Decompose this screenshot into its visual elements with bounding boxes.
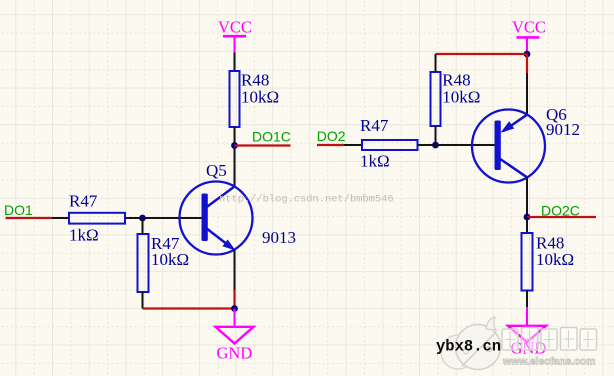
svg-text:R47: R47 — [69, 192, 98, 211]
wire DO1 to R47 — [52, 217, 69, 219]
wire Q6 collector down — [526, 177, 528, 217]
resistor R47 body (left horizontal) — [69, 213, 125, 224]
transistor Q6 emitter line — [503, 115, 527, 132]
transistor Q5 base bar — [202, 194, 208, 242]
svg-text:DO1C: DO1C — [252, 129, 291, 145]
wire VCC to R48 (left) — [234, 53, 236, 72]
svg-text:ybx8.cn: ybx8.cn — [436, 338, 501, 356]
wire GND rail (left red) — [143, 307, 235, 309]
wire junction to R48 bottom — [526, 217, 528, 233]
wire VCC junction down (red) — [526, 54, 528, 73]
wire R47 to Q5 base — [125, 217, 202, 219]
svg-text:DO2C: DO2C — [541, 202, 580, 218]
resistor R48 body (right top) — [431, 72, 441, 126]
transistor Q5 emitter arrow — [223, 240, 236, 251]
wire R48 to GND (right) — [526, 291, 528, 308]
junction node base Q6 — [432, 142, 439, 149]
wire emitter to GND junction (red) — [233, 290, 235, 309]
ground stub (right) — [526, 307, 528, 326]
svg-text:10kΩ: 10kΩ — [536, 250, 574, 269]
transistor Q6 base bar — [495, 121, 501, 171]
resistor R47 body (left vertical pulldown) — [138, 234, 149, 292]
junction node DO1C — [231, 142, 238, 149]
junction node base Q5 — [139, 215, 146, 222]
transistor Q5 collector line — [206, 187, 235, 208]
transistor Q5 emitter line — [206, 228, 230, 247]
svg-text:www.elecfans.com: www.elecfans.com — [502, 357, 596, 368]
svg-text:10kΩ: 10kΩ — [151, 250, 189, 269]
wire net DO1C — [235, 144, 291, 146]
transistor Q5 circle — [180, 182, 253, 255]
wire net DO2C (red) — [527, 216, 596, 218]
wire DO2 to R47 (right) — [344, 144, 362, 146]
wire net DO2 (red) — [317, 144, 344, 146]
wire R48 to Q5 collector — [234, 127, 236, 187]
ground symbol (right) — [508, 326, 546, 342]
svg-text:1kΩ: 1kΩ — [69, 225, 99, 244]
junction node DO2C — [524, 214, 531, 221]
wire R47 pulldown to GND rail — [142, 292, 144, 309]
wire junction to R47 pulldown — [142, 218, 144, 234]
resistor R48 body (left top) — [230, 71, 240, 127]
svg-text:10kΩ: 10kΩ — [442, 87, 480, 106]
svg-text:9013: 9013 — [262, 228, 296, 247]
wire rail to R48 top (right) — [435, 54, 437, 72]
junction node GND (left) — [231, 305, 238, 312]
svg-text:Q5: Q5 — [206, 161, 227, 180]
resistor R47 body (right horizontal) — [362, 140, 418, 150]
transistor Q6 circle — [472, 110, 545, 183]
svg-text:VCC: VCC — [218, 18, 252, 37]
svg-text:DO1: DO1 — [4, 202, 33, 218]
svg-text:http://blog.csdn.net/bmbm546: http://blog.csdn.net/bmbm546 — [219, 194, 394, 206]
wire R48 to base junction — [435, 126, 437, 145]
wire VCC rail to R48 (right red) — [436, 53, 528, 55]
svg-text:10kΩ: 10kΩ — [241, 87, 279, 106]
ground symbol (left) — [216, 327, 254, 344]
junction node VCC (right) — [524, 51, 531, 58]
transistor Q6 emitter arrow — [501, 121, 515, 133]
svg-text:9012: 9012 — [546, 120, 580, 139]
svg-text:R47: R47 — [360, 116, 389, 135]
svg-text:1kΩ: 1kΩ — [360, 151, 390, 170]
svg-text:DO2: DO2 — [317, 128, 346, 144]
power symbol VCC bar (left) — [223, 36, 246, 52]
watermark elecfans logo — [441, 317, 501, 370]
svg-text:VCC: VCC — [512, 18, 546, 37]
wire Q5 emitter down — [234, 250, 236, 291]
wire to Q6 emitter — [526, 73, 528, 115]
power symbol VCC bar (right) — [517, 37, 540, 52]
resistor R48 body (right bottom) — [522, 233, 533, 291]
watermark chinese characters — [502, 328, 597, 351]
transistor Q6 collector line — [500, 159, 528, 178]
svg-text:GND: GND — [217, 344, 253, 363]
wire R47 to Q6 base — [418, 144, 495, 146]
wire net DO1 — [6, 217, 53, 219]
ground stub (left) — [234, 309, 236, 327]
